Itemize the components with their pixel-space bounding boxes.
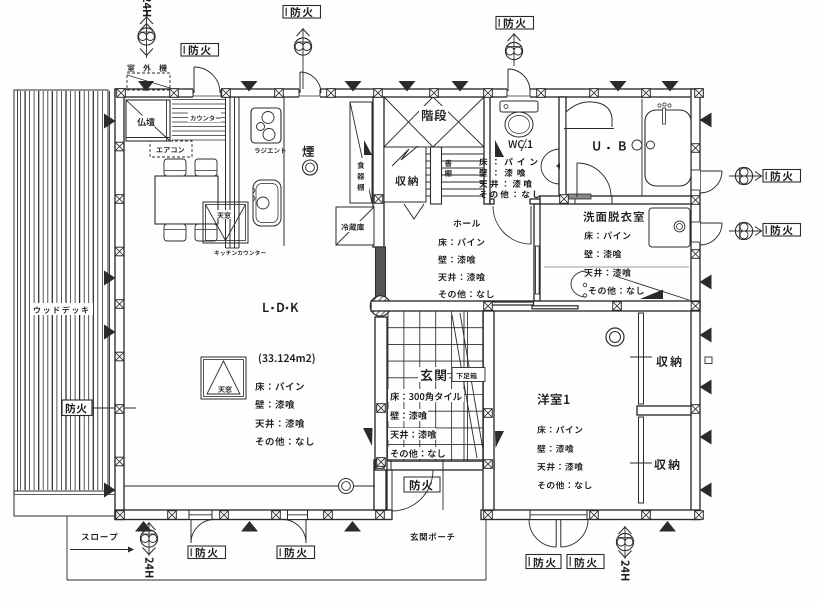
toilet bowl bbox=[505, 112, 533, 137]
bedroom bottom exterior wall bbox=[481, 510, 700, 520]
top wall opening door1 bbox=[193, 88, 221, 98]
hall label bbox=[454, 219, 481, 226]
washroom pocket door bbox=[536, 246, 540, 294]
closet divider wall bbox=[637, 406, 691, 415]
column markers right wall bbox=[691, 144, 700, 153]
WC door to hall bbox=[530, 206, 532, 244]
refrigerator 冷蔵庫 bbox=[336, 207, 374, 245]
LDK bottom wall window opening A bbox=[189, 511, 212, 519]
wood deck ウッドデッキ bbox=[14, 90, 108, 516]
right vent 1 with fire label bbox=[729, 175, 761, 177]
LDK-entrance wall bbox=[375, 317, 387, 510]
dark wall segment below kitchen wall bbox=[376, 247, 386, 300]
right vent 2 with fire label bbox=[729, 230, 761, 232]
column markers left wall bbox=[115, 142, 124, 151]
stair bookshelf label 書棚 bbox=[445, 160, 452, 167]
entrance south wall bbox=[374, 460, 494, 470]
dining chairs top bbox=[164, 159, 186, 176]
kitchen counter label bbox=[215, 250, 266, 255]
buddhist altar 仏壇 bbox=[126, 100, 170, 141]
washroom washbasin arc bbox=[571, 271, 586, 297]
top wall triangles bbox=[241, 81, 258, 92]
bathtub faucet bbox=[658, 104, 661, 107]
top wall opening WC door bbox=[507, 88, 530, 98]
UB bottom wall / washroom top wall bbox=[540, 196, 691, 204]
LDK skylight 天窓 bbox=[201, 357, 246, 399]
24H vent symbol bottom-left bbox=[148, 522, 150, 556]
fire labels bedroom south bbox=[526, 555, 561, 569]
closet sliding door upper bbox=[639, 313, 644, 404]
entrance door opening bbox=[391, 461, 443, 469]
UB washbasin counter bbox=[566, 102, 612, 127]
stairs room 階段 bbox=[384, 146, 484, 148]
air conditioner エアコン bbox=[150, 141, 192, 157]
right exterior wall bbox=[691, 89, 700, 520]
top door 1 (LDK north) bbox=[193, 67, 195, 93]
right wall vent flap opening 1 bbox=[692, 170, 700, 190]
wood deck bottom frame bbox=[14, 491, 122, 516]
wood deck label ウッドデッキ bbox=[30, 303, 93, 315]
bedroom1 specs bbox=[537, 426, 582, 434]
WC room label bbox=[508, 140, 526, 148]
UB divider line bbox=[641, 99, 643, 196]
kitchen sink bbox=[253, 180, 281, 226]
approach outline bbox=[66, 516, 68, 580]
entrance label bbox=[418, 367, 449, 382]
column marker WC corner bbox=[560, 195, 569, 204]
LDK south door B bbox=[305, 520, 307, 544]
under-stair closet zigzag symbol bbox=[392, 146, 418, 166]
left exterior wall bbox=[115, 89, 124, 520]
LDK bottom wall window opening B bbox=[288, 511, 308, 519]
UB drain circles bbox=[632, 140, 642, 150]
stair center rail bbox=[431, 147, 442, 204]
stairs label 階段 bbox=[419, 106, 448, 121]
fire label top 3 with vent bbox=[513, 33, 515, 66]
top door 3 (WC north) bbox=[507, 69, 509, 91]
shoe box label 下足箱 bbox=[447, 373, 453, 375]
UB door bbox=[576, 163, 578, 197]
dish shelf 食器棚 bbox=[350, 102, 372, 203]
right wall vent flap opening 2 bbox=[692, 222, 700, 242]
bedroom south double-door opening bbox=[530, 511, 587, 519]
bottom wall triangles bbox=[135, 521, 152, 532]
UB label bbox=[593, 141, 600, 150]
LDK specs bbox=[255, 382, 304, 391]
small vent on right wall outside bbox=[705, 357, 712, 364]
LDK bottom exterior wall bbox=[115, 510, 392, 520]
hall specs bbox=[438, 238, 484, 246]
slope arrow bbox=[70, 549, 128, 551]
fire labels bottom LDK bbox=[188, 546, 226, 559]
UB door opening in bottom wall bbox=[575, 197, 612, 203]
porch label 玄関ポーチ bbox=[410, 533, 454, 541]
column markers entrance walls bbox=[484, 409, 493, 418]
entrance door arc bbox=[391, 470, 393, 511]
fire label top 1 bbox=[181, 44, 219, 57]
porch-side wall below entrance wall bbox=[374, 470, 386, 510]
under-stair closet bbox=[384, 147, 426, 202]
entrance tile grid bbox=[388, 311, 483, 461]
bedroom ceiling fitting bbox=[606, 328, 624, 346]
dining chairs bottom bbox=[164, 224, 186, 241]
column markers kitchen wall bbox=[374, 195, 383, 204]
washroom ceiling line bbox=[544, 266, 689, 268]
24H vent symbol bottom-right bbox=[624, 526, 626, 559]
WC specs text bbox=[479, 158, 537, 166]
closet sliding door lower bbox=[639, 417, 644, 503]
under-stair closet folding door bbox=[404, 204, 424, 219]
column markers bottom wall bbox=[116, 511, 125, 520]
WC wedge marker bbox=[495, 140, 504, 157]
left wall triangles bbox=[104, 114, 116, 129]
slope label スロープ bbox=[82, 533, 118, 541]
stair steps bbox=[426, 153, 484, 155]
deck fire label 防火 with leader bbox=[92, 407, 136, 409]
WC interior door arc on east wall bbox=[541, 149, 559, 184]
smoke detector 煙 bbox=[302, 146, 314, 157]
column markers top wall bbox=[117, 89, 126, 98]
right wall vent flap 1 bbox=[700, 170, 722, 172]
bedroom1 label bbox=[537, 393, 569, 405]
fire label top 2 with vent bbox=[302, 28, 304, 89]
stairs right wall / WC left wall bbox=[484, 97, 490, 204]
washroom specs bbox=[584, 231, 630, 239]
bathtub bbox=[645, 110, 691, 186]
entrance shoe cabinet strip bbox=[463, 311, 465, 461]
kitchen-stairs wall bbox=[373, 97, 384, 247]
LDK south door A bbox=[190, 520, 192, 544]
closet upper label bbox=[656, 356, 681, 367]
WC bottom wall segments bbox=[490, 199, 494, 204]
entrance right wall / bedroom left wall bbox=[483, 311, 494, 510]
wood deck inner frame line bbox=[109, 91, 111, 491]
top door 2 (kitchen north) bbox=[299, 72, 301, 93]
sliding door double bars bbox=[491, 302, 534, 305]
right wall triangles bbox=[700, 113, 712, 128]
porch fire label bbox=[404, 477, 440, 492]
dining table bbox=[155, 176, 218, 224]
column markers bottom-right wall bbox=[484, 511, 493, 520]
washroom left wall bbox=[534, 204, 540, 301]
LDK area bbox=[259, 353, 315, 364]
WC-UB wall bbox=[559, 97, 566, 199]
kitchen skylight 天窓 bbox=[203, 202, 248, 243]
entrance door jamb line bbox=[442, 470, 444, 510]
24H vent symbol top-left bbox=[146, 6, 148, 58]
sliding door opening hall to bedroom1 bbox=[490, 302, 578, 310]
washroom hatched wall segment bbox=[568, 194, 591, 199]
hall-bedroom wall / south corridor wall bbox=[371, 301, 700, 311]
closet lower label bbox=[654, 459, 679, 470]
top wall opening door2 bbox=[299, 88, 320, 98]
LDK label bbox=[263, 303, 268, 312]
column markers corridor wall bbox=[484, 302, 493, 311]
LDK south sill line with fitting bbox=[124, 485, 375, 487]
washing machine bbox=[649, 208, 690, 247]
right wall vent flap 2 bbox=[700, 222, 722, 224]
kitchen counter front edge bbox=[283, 97, 285, 246]
washroom corner diagonal with triangle bbox=[615, 276, 689, 300]
kitchen counter partition lines bbox=[225, 97, 227, 248]
outdoor unit 室外機 bbox=[127, 64, 166, 71]
washroom label bbox=[583, 211, 644, 222]
counter hatched カウンター bbox=[172, 100, 226, 141]
toilet tank bbox=[500, 101, 538, 112]
radiant cooktop bbox=[251, 108, 281, 143]
column markers LDK east wall bbox=[377, 404, 386, 413]
bedroom wedge marker west wall bbox=[495, 431, 504, 448]
top exterior wall bbox=[115, 89, 703, 97]
entrance specs bbox=[388, 389, 464, 402]
bedroom double doors bbox=[555, 520, 557, 548]
LDK wedge marker east wall bbox=[363, 428, 373, 446]
